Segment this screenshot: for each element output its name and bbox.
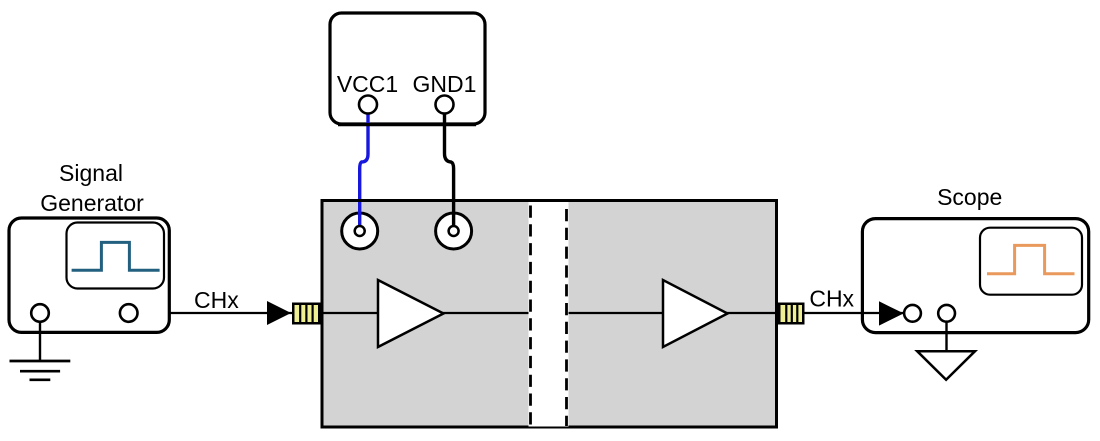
svg-text:Signal: Signal bbox=[59, 160, 123, 186]
svg-text:Scope: Scope bbox=[937, 184, 1002, 210]
svg-text:Generator: Generator bbox=[40, 190, 144, 216]
svg-text:CHx: CHx bbox=[809, 286, 854, 312]
svg-text:GND1: GND1 bbox=[413, 71, 477, 97]
svg-text:VCC1: VCC1 bbox=[337, 71, 398, 97]
svg-text:CHx: CHx bbox=[194, 287, 239, 313]
